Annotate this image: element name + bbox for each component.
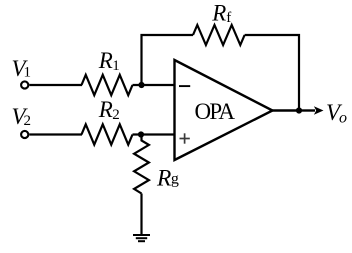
svg-text:o: o	[339, 110, 347, 127]
resistor R2	[82, 124, 133, 144]
label R1	[98, 48, 120, 74]
svg-text:R: R	[98, 97, 113, 122]
wire R2 to op-amp noninverting input	[133, 133, 176, 135]
wire R1 to op-amp inverting input	[133, 84, 176, 86]
svg-text:OPA: OPA	[195, 99, 236, 124]
op-amp inverting pin label (minus)	[179, 85, 190, 87]
wire V1 terminal to R1	[29, 84, 82, 86]
svg-text:R: R	[98, 48, 113, 73]
resistor R1	[82, 75, 133, 95]
resistor Rf	[193, 25, 245, 45]
wire op-amp output to node C	[273, 109, 300, 111]
svg-text:1: 1	[112, 58, 120, 74]
node B junction dot (R2 / Rg branch)	[138, 131, 144, 137]
wire node A up and over to Rf	[142, 35, 194, 85]
label V2	[12, 104, 32, 129]
svg-text:f: f	[226, 10, 231, 26]
label R2	[98, 97, 120, 123]
svg-text:R: R	[156, 165, 171, 191]
svg-text:R: R	[211, 0, 226, 25]
node A junction dot (R1 / Rf branch)	[138, 82, 144, 88]
wire Rg to ground	[140, 194, 142, 236]
op-amp noninverting pin label (plus)	[180, 133, 190, 143]
wire Rf to output node C	[245, 35, 299, 111]
ground	[133, 235, 150, 241]
wire output arrow to Vo	[299, 106, 324, 115]
node V2 input terminal	[21, 131, 28, 138]
op-amp U1 triangle	[175, 60, 273, 160]
svg-text:2: 2	[112, 107, 120, 123]
label Rg	[156, 165, 179, 191]
svg-text:1: 1	[24, 65, 32, 81]
node V1 input terminal	[21, 81, 28, 88]
svg-text:2: 2	[24, 113, 32, 129]
label OPA	[195, 99, 236, 124]
svg-text:g: g	[171, 171, 179, 188]
label Rf	[211, 0, 231, 26]
label Vo	[326, 100, 347, 127]
resistor Rg	[134, 135, 149, 194]
label V1	[12, 56, 32, 81]
node C output junction dot	[296, 107, 302, 113]
wire V2 terminal to R2	[29, 133, 82, 135]
